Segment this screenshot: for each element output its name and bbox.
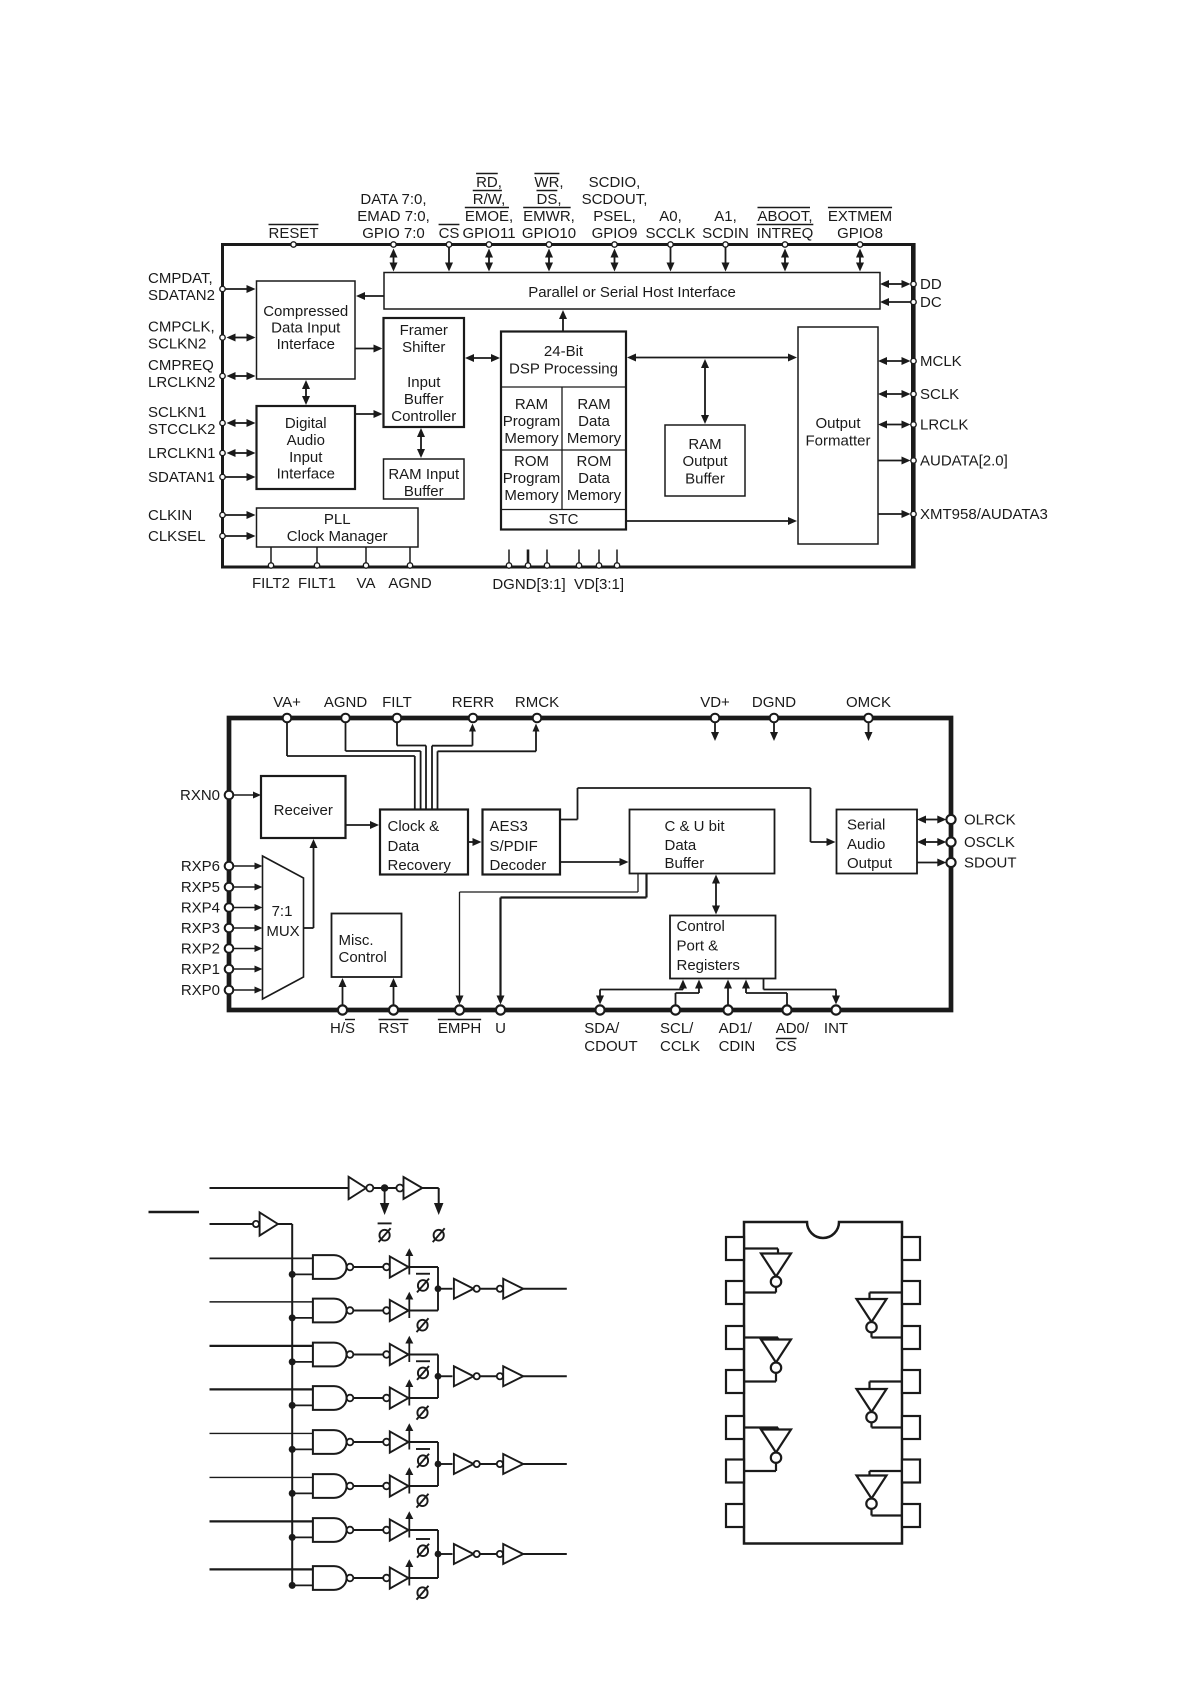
NAND gate G6: [313, 1474, 353, 1498]
clocked inverter CI3: [383, 1336, 413, 1365]
wire phi branch with arrow: [422, 1188, 443, 1215]
svg-text:SDATAN2: SDATAN2: [148, 287, 215, 304]
svg-text:Formatter: Formatter: [805, 433, 870, 450]
pin 7 (package left): [726, 1504, 744, 1527]
wire select input line: [210, 1223, 253, 1225]
inverter: clock buffer 2: [396, 1177, 422, 1199]
svg-text:AD1/: AD1/: [719, 1020, 753, 1037]
svg-text:Misc.: Misc.: [339, 932, 374, 949]
svg-text:R/W,: R/W,: [473, 191, 506, 208]
wire NAND 4 output: [353, 1397, 383, 1399]
pins VD[3:1] (bottom): [574, 550, 624, 594]
wire pair 3 join: [437, 1442, 439, 1486]
pin INT (middle bottom): [824, 1005, 848, 1037]
wire GPIO9 to host interface: [614, 257, 616, 264]
NAND gate G5: [313, 1430, 353, 1454]
svg-text:AGND: AGND: [388, 575, 432, 592]
node bus tap 6: [289, 1490, 296, 1497]
inverter: output buffer A pair 1: [454, 1279, 480, 1299]
inverter: output buffer B pair 3: [497, 1454, 523, 1474]
wire LRCLKN1 into block: [235, 452, 248, 454]
wire NAND 2 output: [353, 1310, 383, 1312]
svg-text:Data: Data: [388, 838, 420, 855]
svg-text:Compressed: Compressed: [263, 303, 348, 320]
stub line (left margin): [149, 1211, 200, 1213]
svg-text:CMPDAT,: CMPDAT,: [148, 270, 213, 287]
svg-text:Input: Input: [407, 374, 441, 391]
svg-text:ROM: ROM: [577, 453, 612, 470]
svg-text:LRCLK: LRCLK: [920, 417, 968, 434]
svg-text:WR,: WR,: [534, 174, 563, 191]
svg-text:U: U: [495, 1020, 506, 1037]
block: RAM Output Buffer: [665, 425, 745, 496]
svg-text:Memory: Memory: [504, 430, 559, 447]
wire CMPREQ into block: [235, 375, 248, 377]
svg-text:CCLK: CCLK: [660, 1038, 700, 1055]
svg-text:EMAD 7:0,: EMAD 7:0,: [357, 208, 430, 225]
wire Compressed to Digital Audio (bidirectional): [305, 388, 307, 397]
wire data input 1: [210, 1257, 313, 1259]
wire EMPH from C & U bit Data Buffer (output): [456, 874, 639, 1005]
pin RXP2 (middle left): [181, 941, 233, 958]
block: Digital Audio Input Interface: [257, 406, 356, 489]
block: Serial Audio Output: [837, 810, 918, 874]
wire SCL/CCLK to Control Port: [676, 980, 704, 1006]
node pair 4 output junction: [435, 1551, 442, 1558]
NAND gate G4: [313, 1386, 353, 1410]
svg-text:RERR: RERR: [452, 694, 495, 711]
svg-text:Parallel or Serial Host Interf: Parallel or Serial Host Interface: [528, 284, 736, 301]
wire INTREQ to host interface: [784, 257, 786, 264]
svg-text:SCLKN1: SCLKN1: [148, 404, 206, 421]
pin RXP0 (middle left): [181, 982, 233, 999]
inverter U1 input wire: [744, 1249, 778, 1254]
inverter U2 output wire: [744, 1373, 776, 1382]
clocked inverter CI4: [383, 1379, 413, 1408]
pin 1 (package left): [726, 1237, 744, 1260]
wire supply pin into chip: [868, 722, 870, 733]
label phi pair 4: [417, 1587, 427, 1598]
inverter U5: [857, 1389, 887, 1422]
svg-text:Interface: Interface: [277, 466, 335, 483]
wire RMCK from Clock & Data Recovery (output): [438, 724, 540, 810]
wire SDATAN1 into block: [225, 476, 248, 478]
wire clocked inverter CI7 output: [409, 1529, 439, 1531]
svg-text:RXP6: RXP6: [181, 858, 220, 875]
wire between output buffers pair 1: [480, 1288, 497, 1290]
block: Receiver: [261, 776, 346, 838]
wire junction to output buffer pair 3: [438, 1463, 453, 1465]
svg-text:RST: RST: [379, 1020, 409, 1037]
junction node phi-bar tap: [381, 1184, 389, 1192]
wire Receiver to Clock & Data Recovery: [346, 824, 372, 826]
block: 24-Bit DSP Processing with memories and STC: [501, 332, 626, 530]
svg-text:Decoder: Decoder: [490, 857, 547, 874]
clocked inverter CI2: [383, 1292, 413, 1321]
svg-text:Data: Data: [578, 413, 610, 430]
svg-text:Clock Manager: Clock Manager: [287, 528, 388, 545]
block: RAM Input Buffer: [384, 459, 465, 500]
wire bus to NAND 7 lower input: [292, 1536, 313, 1538]
wire RXP6 input arrow: [233, 865, 255, 867]
svg-text:RAM: RAM: [577, 396, 610, 413]
pin SCLK (right): [911, 386, 959, 403]
svg-text:CDOUT: CDOUT: [584, 1038, 637, 1055]
pin CLKIN (left): [148, 507, 225, 524]
pin OMCK (middle top): [846, 694, 891, 722]
svg-text:AES3: AES3: [490, 818, 528, 835]
wire RXP3 input arrow: [233, 927, 255, 929]
svg-text:Interface: Interface: [277, 336, 335, 353]
wire SCDIN to host interface: [725, 247, 727, 264]
clocked inverter CI7: [383, 1511, 413, 1540]
svg-text:Input: Input: [289, 449, 323, 466]
pin 13 (package right): [902, 1281, 920, 1304]
pin RMCK (middle top): [515, 694, 559, 722]
pin AD0//CS (middle bottom): [776, 1005, 810, 1055]
label phi-bar pair 1: [416, 1273, 430, 1275]
pin SCDIN (top): [702, 208, 749, 247]
wire data input 5: [210, 1432, 313, 1434]
wire inverter to vertical bus: [278, 1223, 292, 1225]
pin FILT2 (bottom): [252, 547, 290, 592]
wire clocked inverter CI2 output: [409, 1310, 439, 1312]
svg-text:MUX: MUX: [266, 923, 299, 940]
pin GPIO 7:0 (top): [357, 191, 430, 247]
svg-text:Memory: Memory: [567, 430, 622, 447]
svg-text:H/S: H/S: [330, 1020, 355, 1037]
pin 4 (package left): [726, 1370, 744, 1393]
pin OLRCK (middle right): [946, 812, 1015, 829]
svg-text:RAM: RAM: [688, 436, 721, 453]
svg-text:SDOUT: SDOUT: [964, 855, 1017, 872]
wire Digital Audio to Framer Shifter: [355, 413, 375, 415]
svg-text:VA+: VA+: [273, 694, 301, 711]
svg-text:Controller: Controller: [391, 408, 456, 425]
pin XMT958/AUDATA3 (right): [911, 506, 1048, 523]
pin U (middle bottom): [495, 1005, 506, 1037]
svg-text:RAM: RAM: [515, 396, 548, 413]
svg-text:DD: DD: [920, 276, 942, 293]
wire SDA/CDOUT to Control Port (bidirectional): [596, 980, 687, 1005]
svg-text:Output: Output: [682, 453, 728, 470]
svg-text:Data: Data: [665, 837, 697, 854]
svg-text:Serial: Serial: [847, 817, 885, 834]
pin SCCLK (top): [645, 208, 695, 247]
svg-text:VD+: VD+: [700, 694, 730, 711]
clocked inverter CI8: [383, 1559, 413, 1588]
inverter U6 output wire: [872, 1509, 903, 1516]
wire RXP4 input arrow: [233, 907, 255, 909]
svg-text:RD,: RD,: [476, 174, 502, 191]
inverter: select line buffer: [253, 1212, 278, 1235]
svg-text:Digital: Digital: [285, 415, 327, 432]
pin RXP5 (middle left): [181, 879, 233, 896]
wire clocked inverter CI4 output: [409, 1397, 439, 1399]
wire data input 4: [210, 1388, 313, 1390]
wire pair 4 join: [437, 1530, 439, 1578]
pin H/S (middle bottom): [330, 1005, 355, 1037]
svg-text:STCCLK2: STCCLK2: [148, 421, 216, 438]
svg-text:Audio: Audio: [847, 836, 885, 853]
svg-text:AD0/: AD0/: [776, 1020, 810, 1037]
svg-text:24-Bit: 24-Bit: [544, 343, 584, 360]
svg-text:XMT958/AUDATA3: XMT958/AUDATA3: [920, 506, 1048, 523]
svg-text:Registers: Registers: [677, 957, 740, 974]
svg-text:SCCLK: SCCLK: [645, 225, 695, 242]
wire RXP0 input arrow: [233, 989, 255, 991]
wire bus to NAND 8 lower input: [292, 1584, 313, 1586]
wire output 4: [523, 1553, 567, 1555]
svg-text:FILT: FILT: [382, 694, 412, 711]
svg-text:AUDATA[2.0]: AUDATA[2.0]: [920, 453, 1008, 470]
inverter U5 input wire: [870, 1382, 903, 1390]
wire bus to NAND 2 lower input: [292, 1317, 313, 1319]
pin RXP6 (middle left): [181, 858, 233, 875]
wire FILT to Clock & Data Recovery: [397, 722, 426, 809]
block: AES3 S/PDIF Decoder: [483, 810, 561, 875]
wire CMPCLK into block: [235, 337, 248, 339]
wire RST to Misc Control: [393, 986, 395, 1005]
wire Framer Shifter to DSP (bidirectional): [473, 357, 492, 359]
wire AD0/CS to Control Port: [742, 980, 787, 1006]
inverter U3 input wire: [744, 1428, 778, 1430]
wire Clock & Data Recovery to AES3 decoder: [468, 841, 474, 843]
svg-text:Buffer: Buffer: [685, 471, 725, 488]
svg-text:RAM Input: RAM Input: [388, 466, 460, 483]
wire output 2: [523, 1375, 567, 1377]
label phi-bar pair 3: [416, 1448, 430, 1450]
clocked inverter CI6: [383, 1467, 413, 1496]
svg-text:MCLK: MCLK: [920, 353, 962, 370]
svg-text:CMPREQ: CMPREQ: [148, 357, 214, 374]
label phi-bar (top): [378, 1222, 392, 1224]
svg-text:Audio: Audio: [287, 432, 325, 449]
label phi (top): [434, 1230, 444, 1241]
svg-text:Memory: Memory: [504, 487, 559, 504]
pin GPIO10 (top): [522, 174, 576, 248]
pin RESET (top): [268, 225, 318, 248]
block: Compressed Data Input Interface: [257, 281, 356, 379]
pin CMPCLK (left): [148, 319, 225, 353]
svg-text:A0,: A0,: [659, 208, 682, 225]
svg-text:CDIN: CDIN: [719, 1038, 756, 1055]
svg-text:INTREQ: INTREQ: [757, 225, 814, 242]
wire RXP1 input arrow: [233, 968, 255, 970]
wire data input 3: [210, 1345, 313, 1347]
svg-text:RXP3: RXP3: [181, 920, 220, 937]
svg-text:7:1: 7:1: [272, 903, 293, 920]
svg-text:OSCLK: OSCLK: [964, 834, 1015, 851]
wire DSP to host interface: [562, 318, 564, 332]
wire DSP to Output Formatter (bidirectional): [635, 357, 789, 359]
wire GPIO11 to host interface: [488, 257, 490, 264]
wire GPIO8 to host interface: [859, 257, 861, 264]
pin RXP3 (middle left): [181, 920, 233, 937]
wire NAND 7 output: [353, 1529, 383, 1531]
svg-text:A1,: A1,: [714, 208, 737, 225]
svg-text:RXP0: RXP0: [181, 982, 220, 999]
wire clocked inverter CI1 output: [409, 1266, 439, 1268]
pin SCL//CCLK (middle bottom): [660, 1005, 700, 1055]
wire AD1/CDIN to Control Port: [727, 988, 729, 1006]
inverter: output buffer A pair 4: [454, 1544, 480, 1564]
svg-text:RXP1: RXP1: [181, 961, 220, 978]
IC package body with pin-1 notch: [744, 1222, 902, 1544]
inverter U2 input wire: [744, 1338, 778, 1340]
top diagram: DSP decoder block diagram outer boundary: [223, 243, 914, 569]
wire OLRCK: [925, 819, 938, 821]
wire output 1: [523, 1288, 567, 1290]
pin SCLKN1 (left): [148, 404, 225, 438]
wire STC to Output Formatter: [626, 520, 789, 522]
svg-text:LRCLKN2: LRCLKN2: [148, 374, 216, 391]
wire Framer Shifter to RAM Input Buffer (bidirectional): [420, 436, 422, 450]
pin DGND (middle top): [752, 694, 796, 722]
wire RXN0 input arrow: [233, 794, 254, 796]
wire RXP2 input arrow: [233, 948, 255, 950]
wire GPIO 7:0 to host interface: [393, 257, 395, 264]
svg-text:Output: Output: [847, 855, 893, 872]
wire NAND 1 output: [353, 1266, 383, 1268]
svg-text:Shifter: Shifter: [402, 339, 445, 356]
wire clocked inverter CI6 output: [409, 1485, 439, 1487]
pin AGND (bottom): [388, 547, 432, 592]
svg-text:EMPH: EMPH: [438, 1020, 481, 1037]
node pair 3 output junction: [435, 1461, 442, 1468]
clocked inverter CI1: [383, 1248, 413, 1277]
wire host interface to Compressed Data Input Interface: [364, 295, 384, 297]
wire inverter1 output to junction: [373, 1187, 396, 1189]
svg-text:Data: Data: [578, 470, 610, 487]
label phi pair 2: [417, 1407, 427, 1418]
svg-text:CMPCLK,: CMPCLK,: [148, 319, 215, 336]
pin DD (right): [911, 276, 942, 293]
svg-text:Buffer: Buffer: [665, 855, 705, 872]
block: C & U bit Data Buffer: [630, 810, 775, 874]
node bus tap 5: [289, 1446, 296, 1453]
wire between output buffers pair 4: [480, 1553, 497, 1555]
svg-text:SCLKN2: SCLKN2: [148, 336, 206, 353]
pin GPIO11 (top): [462, 174, 515, 248]
block: Framer Shifter / Input Buffer Controller: [384, 318, 465, 427]
svg-text:RXP2: RXP2: [181, 941, 220, 958]
svg-text:Control: Control: [677, 918, 725, 935]
block: Clock & Data Recovery: [380, 810, 468, 875]
pin LRCLK (right): [911, 417, 969, 434]
pin RXP4 (middle left): [181, 900, 233, 917]
wire AGND to Clock & Data Recovery: [346, 722, 421, 809]
wire SCLK: [886, 393, 903, 395]
wire pair 2 join: [437, 1355, 439, 1399]
svg-text:RXN0: RXN0: [180, 787, 220, 804]
pin EMPH (middle bottom): [438, 1005, 481, 1037]
pin RXP1 (middle left): [181, 961, 233, 978]
svg-text:CLKSEL: CLKSEL: [148, 528, 206, 545]
svg-text:EMOE,: EMOE,: [465, 208, 513, 225]
pin 6 (package left): [726, 1460, 744, 1483]
label phi pair 1: [417, 1320, 427, 1331]
wire clocked inverter CI5 output: [409, 1441, 439, 1443]
pin 9 (package right): [902, 1460, 920, 1483]
wire clocked inverter CI3 output: [409, 1354, 439, 1356]
block: Control Port & Registers: [670, 916, 776, 979]
wire C & U bit Data Buffer to Control Port (bidirectional): [715, 883, 717, 907]
svg-text:Data Input: Data Input: [271, 320, 341, 337]
svg-text:DGND[3:1]: DGND[3:1]: [492, 576, 565, 593]
wire AES3 decoder to Serial Audio Output: [560, 788, 836, 846]
svg-text:Receiver: Receiver: [274, 802, 333, 819]
svg-text:DC: DC: [920, 294, 942, 311]
svg-text:DS,: DS,: [536, 191, 561, 208]
inverter: output buffer A pair 2: [454, 1366, 480, 1386]
wire 7:1 MUX output to Receiver: [304, 839, 318, 928]
pin CMPDAT (left): [148, 270, 225, 304]
wire CMPDAT into block: [225, 288, 248, 290]
wire LRCLK: [886, 424, 903, 426]
inverter: clock buffer 1: [349, 1177, 374, 1199]
wire bus to NAND 3 lower input: [292, 1361, 313, 1363]
node bus tap 7: [289, 1534, 296, 1541]
svg-text:C & U bit: C & U bit: [665, 818, 726, 835]
wire CLKSEL into block: [225, 535, 248, 537]
svg-text:Buffer: Buffer: [404, 483, 444, 500]
svg-text:RXP5: RXP5: [181, 879, 220, 896]
NAND gate G1: [313, 1255, 353, 1279]
svg-text:SCDOUT,: SCDOUT,: [582, 191, 648, 208]
wire CLKIN into block: [225, 514, 248, 516]
pin VA (bottom): [357, 547, 376, 592]
wire phi-bar branch with arrow: [380, 1188, 390, 1215]
pins DGND[3:1] (bottom): [492, 550, 565, 594]
svg-text:EMWR,: EMWR,: [523, 208, 575, 225]
pin OSCLK (middle right): [946, 834, 1014, 851]
block: Parallel or Serial Host Interface: [384, 273, 880, 310]
svg-text:RMCK: RMCK: [515, 694, 559, 711]
pin MCLK (right): [911, 353, 962, 370]
svg-text:GPIO11: GPIO11: [462, 225, 515, 242]
pin FILT (middle top): [382, 694, 412, 722]
wire RXP5 input arrow: [233, 886, 255, 888]
pin AGND (middle top): [324, 694, 368, 722]
svg-text:RESET: RESET: [268, 225, 318, 242]
wire data input 2: [210, 1301, 313, 1303]
pin RERR (middle top): [452, 694, 495, 722]
svg-text:CS: CS: [776, 1038, 797, 1055]
wire Compressed to Framer Shifter: [355, 348, 375, 350]
svg-text:OMCK: OMCK: [846, 694, 891, 711]
svg-text:RXP4: RXP4: [181, 900, 220, 917]
svg-text:Program: Program: [503, 470, 561, 487]
svg-text:SCDIN: SCDIN: [702, 225, 749, 242]
wire NAND 6 output: [353, 1485, 383, 1487]
inverter: output buffer A pair 3: [454, 1454, 480, 1474]
wire H/S to Misc Control: [342, 986, 344, 1005]
svg-text:PLL: PLL: [324, 511, 351, 528]
inverter U5 output wire: [872, 1422, 903, 1427]
svg-text:OLRCK: OLRCK: [964, 812, 1016, 829]
node pair 2 output junction: [435, 1373, 442, 1380]
wire SCLKN1 into block: [235, 422, 248, 424]
svg-text:SDA/: SDA/: [584, 1020, 620, 1037]
pin FILT1 (bottom): [298, 547, 336, 592]
pin DC (right): [911, 294, 942, 311]
block: Output Formatter: [798, 327, 878, 544]
wire supply pin into chip: [714, 722, 716, 733]
inverter U4: [857, 1299, 887, 1332]
svg-text:INT: INT: [824, 1020, 848, 1037]
label phi-bar pair 4: [416, 1538, 430, 1540]
